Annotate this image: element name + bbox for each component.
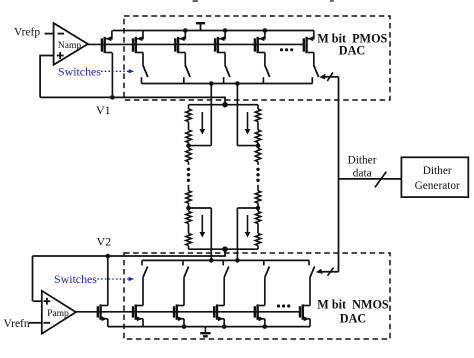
- svg-text:V2: V2: [97, 235, 112, 249]
- svg-text:V1: V1: [96, 103, 111, 117]
- svg-text:Switches: Switches: [58, 64, 101, 78]
- svg-text:M bit NMOS: M bit NMOS: [317, 298, 389, 312]
- svg-text:DAC: DAC: [340, 312, 366, 326]
- svg-text:Dither: Dither: [423, 165, 452, 177]
- svg-text:Namp: Namp: [58, 41, 81, 51]
- svg-text:Switches: Switches: [54, 272, 97, 286]
- svg-text:data: data: [353, 167, 372, 179]
- svg-text:Vrefn: Vrefn: [4, 318, 30, 330]
- svg-text:Vrefp: Vrefp: [14, 27, 40, 39]
- svg-text:Pamp: Pamp: [47, 309, 69, 319]
- svg-text:Dither: Dither: [348, 155, 377, 167]
- svg-text:DAC: DAC: [339, 44, 365, 58]
- svg-text:Generator: Generator: [415, 180, 460, 192]
